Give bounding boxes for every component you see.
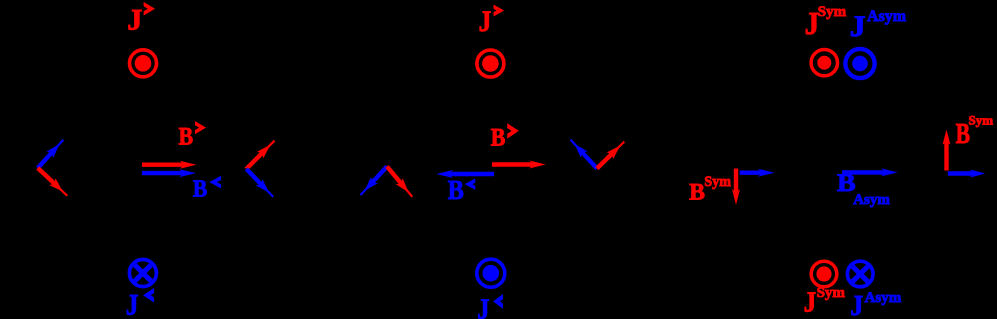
B> red arrow right (between pair 2) [492,161,546,169]
field arm red up-right (V2, right of pair 1) [246,141,274,169]
right top: red circle-dot J-Sym [811,50,837,76]
svg-text:B: B [689,180,705,206]
wire 1 bottom: blue circle-X (J< into page) [129,260,156,287]
svg-text:J: J [477,294,489,319]
svg-text:Sym: Sym [818,4,847,20]
svg-text:B: B [448,174,464,205]
superscript > of J (left top) [144,2,156,16]
red arrow down (B-Sym field) [732,169,740,206]
superscript < of B (pair 2) [465,179,476,190]
B> red arrow right (between pair 1) [142,161,197,169]
svg-text:J: J [850,10,866,43]
svg-text:Asym: Asym [853,192,890,208]
svg-text:B: B [179,121,194,150]
svg-text:B: B [193,176,207,203]
svg-text:J: J [850,290,863,319]
field arm red down-right (Lambda, left of pair 2) [387,167,412,197]
wire 1 top: red circle-dot (J> out of page) [130,50,157,77]
superscript < of J (middle bottom) [493,294,503,309]
svg-text:Asym: Asym [867,8,907,25]
blue arrow right (resultant) [948,170,985,178]
svg-text:J: J [479,5,492,38]
wire 2 top: red circle-dot [477,50,504,77]
B< blue arrow left (between pair 2) [436,170,494,178]
field arm blue up-right (V1, left of pair 1) [38,140,64,168]
superscript > of B (pair 1) [195,121,206,134]
right bottom: red circle-dot [811,261,837,287]
svg-text:J: J [127,3,142,36]
field arm blue up-left (V3, right of pair 2) [571,140,598,169]
svg-text:Sym: Sym [969,113,994,128]
blue arrow right (Asym field) [740,169,775,177]
svg-text:J: J [804,286,817,318]
svg-text:Asym: Asym [865,290,902,306]
superscript < of J (left bottom) [143,288,154,303]
svg-text:Sym: Sym [704,174,731,190]
field arm blue down-left (Lambda, left of pair 2) [361,167,387,196]
superscript > of J (middle top) [494,5,505,17]
wire 2 bottom: blue circle-dot (J< out of page) [477,259,505,287]
superscript > of B (pair 2) [507,123,519,138]
B< blue arrow right (between pair 1) [142,169,196,177]
right bottom: blue circle-X [847,261,873,287]
red arrow up (B-Sym resultant) [943,130,951,171]
svg-text:J: J [126,288,139,319]
right top: blue circle-dot J-Asym [845,49,874,78]
field arm blue down-right (V2, right of pair 1) [246,169,273,197]
svg-text:Sym: Sym [817,285,846,301]
field arm red up-right (V3, right of pair 2) [597,142,624,169]
field arm red down-right (V1, left of pair 1) [38,168,68,196]
superscript < of B (pair 1) [209,176,221,189]
svg-text:B: B [491,125,506,152]
blue arrow right (B-Asym) [842,168,898,176]
